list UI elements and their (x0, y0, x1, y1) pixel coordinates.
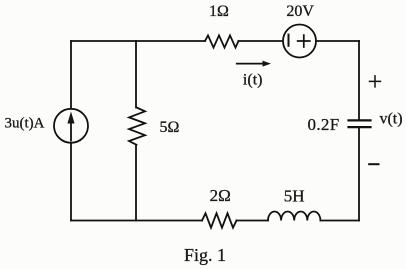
wire top segment A to resistor R1 (71, 40, 205, 42)
resistor R1 1ohm zigzag (205, 35, 239, 47)
resistor R2 2ohm zigzag (202, 213, 237, 227)
svg-text:5Ω: 5Ω (160, 119, 180, 136)
voltage source V1 20V circle (283, 25, 316, 58)
plus sign of v(t) polarity (370, 76, 381, 87)
svg-text:20V: 20V (286, 3, 314, 20)
svg-text:2Ω: 2Ω (210, 186, 231, 205)
wire bottom right segment (node C to inductor) (320, 220, 359, 222)
wire left vertical (node A to node D) (70, 41, 72, 221)
svg-text:i(t): i(t) (243, 72, 263, 89)
voltage source V1 plus sign (298, 35, 310, 47)
inductor L1 5H coils (268, 212, 320, 221)
wire right vertical upper (node B to capacitor) (358, 41, 360, 120)
svg-text:0.2F: 0.2F (308, 115, 340, 134)
voltage source V1 minus terminal bar (288, 35, 290, 46)
wire inductor to resistor R2 (237, 220, 269, 222)
svg-text:1Ω: 1Ω (209, 3, 229, 20)
wire V1 to top-right corner node B (316, 40, 359, 42)
svg-text:v(t): v(t) (379, 111, 402, 128)
capacitor C1 0.2F top plate (349, 119, 371, 121)
current source I1 arrowhead (67, 112, 74, 124)
wire R1 to voltage source V1 (239, 40, 285, 42)
wire R2 to bottom-left corner node D (71, 220, 202, 222)
capacitor C1 0.2F bottom plate (349, 126, 371, 128)
svg-text:5H: 5H (284, 187, 305, 206)
wire middle vertical lower (R3 to bottom) (135, 145, 137, 221)
current source I1 3u(t)A circle (54, 109, 88, 143)
resistor R3 5ohm vertical zigzag (129, 108, 145, 145)
wire middle vertical upper (top to resistor R3) (135, 41, 137, 108)
svg-text:3u(t)A: 3u(t)A (5, 116, 45, 132)
current source I1 arrow shaft (70, 117, 72, 141)
minus sign of v(t) polarity (369, 163, 378, 165)
wire right vertical lower (capacitor to node C) (358, 127, 360, 220)
svg-text:Fig. 1: Fig. 1 (184, 245, 226, 265)
current direction arrow i(t) head (263, 61, 272, 67)
current direction arrow i(t) shaft (237, 63, 264, 65)
